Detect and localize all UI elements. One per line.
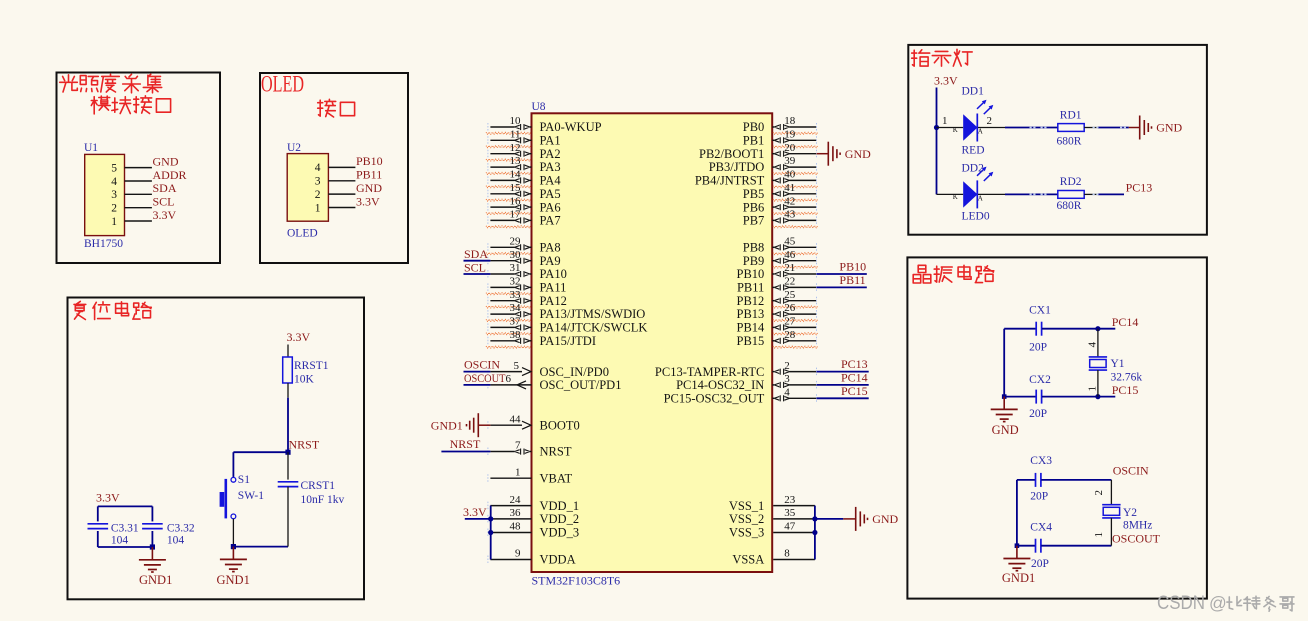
- svg-text:PC15: PC15: [841, 384, 868, 398]
- svg-text:PB11: PB11: [839, 273, 865, 287]
- svg-text:44: 44: [510, 413, 522, 425]
- svg-text:OSCOUT: OSCOUT: [1112, 532, 1161, 546]
- svg-text:PA0-WKUP: PA0-WKUP: [540, 120, 602, 134]
- svg-text:VSS_1: VSS_1: [729, 499, 764, 513]
- svg-text:10nF 1kv: 10nF 1kv: [301, 494, 345, 506]
- svg-text:VDD_2: VDD_2: [540, 512, 580, 526]
- svg-text:PA9: PA9: [540, 254, 561, 268]
- svg-text:A: A: [978, 194, 983, 202]
- svg-text:NRST: NRST: [450, 437, 481, 451]
- svg-text:35: 35: [784, 507, 796, 519]
- svg-text:3.3V: 3.3V: [463, 505, 487, 519]
- svg-text:1: 1: [942, 115, 948, 127]
- svg-text:RRST1: RRST1: [294, 360, 329, 372]
- svg-text:CRST1: CRST1: [301, 480, 336, 492]
- svg-text:@: @: [1209, 593, 1227, 613]
- svg-text:PA13/JTMS/SWDIO: PA13/JTMS/SWDIO: [540, 307, 646, 321]
- svg-text:CX1: CX1: [1029, 305, 1051, 317]
- svg-text:10K: 10K: [294, 374, 315, 386]
- svg-text:PA4: PA4: [540, 174, 562, 188]
- svg-text:PB14: PB14: [737, 321, 766, 335]
- svg-text:GND1: GND1: [431, 418, 463, 432]
- svg-text:NRST: NRST: [289, 437, 320, 451]
- svg-text:OSCIN: OSCIN: [464, 358, 500, 372]
- svg-text:PB2/BOOT1: PB2/BOOT1: [699, 147, 764, 161]
- svg-text:RED: RED: [962, 145, 985, 157]
- svg-text:GND: GND: [153, 154, 179, 168]
- svg-text:104: 104: [167, 535, 185, 547]
- svg-text:PB1: PB1: [743, 134, 765, 148]
- svg-text:PB13: PB13: [737, 307, 765, 321]
- svg-text:24: 24: [510, 494, 522, 506]
- svg-text:9: 9: [515, 548, 521, 560]
- svg-text:PC13: PC13: [841, 357, 868, 371]
- svg-text:PB0: PB0: [743, 120, 765, 134]
- svg-text:20P: 20P: [1029, 341, 1047, 353]
- svg-text:SCL: SCL: [153, 195, 175, 209]
- svg-text:VDDA: VDDA: [540, 553, 576, 567]
- svg-text:PA14/JTCK/SWCLK: PA14/JTCK/SWCLK: [540, 321, 648, 335]
- svg-text:680R: 680R: [1057, 200, 1082, 212]
- svg-text:VBAT: VBAT: [540, 471, 573, 485]
- svg-text:GND: GND: [992, 423, 1019, 437]
- svg-text:C3.32: C3.32: [167, 523, 195, 535]
- svg-text:GND: GND: [356, 181, 382, 195]
- svg-text:4: 4: [315, 162, 321, 174]
- svg-text:PA11: PA11: [540, 281, 567, 295]
- svg-text:2: 2: [315, 189, 321, 201]
- svg-text:3.3V: 3.3V: [96, 491, 120, 505]
- svg-text:NRST: NRST: [540, 445, 572, 459]
- svg-text:U2: U2: [287, 142, 301, 154]
- svg-text:C3.31: C3.31: [111, 523, 139, 535]
- svg-text:104: 104: [111, 535, 128, 547]
- svg-text:LED0: LED0: [962, 211, 990, 223]
- svg-text:PB9: PB9: [743, 254, 765, 268]
- svg-text:RD2: RD2: [1060, 176, 1082, 188]
- svg-text:PA12: PA12: [540, 294, 567, 308]
- svg-text:PC13: PC13: [1126, 181, 1153, 195]
- svg-text:PB10: PB10: [356, 154, 383, 168]
- svg-text:3: 3: [111, 189, 117, 201]
- svg-text:DD1: DD1: [962, 86, 985, 98]
- svg-text:K: K: [953, 193, 958, 201]
- svg-text:4: 4: [111, 176, 117, 188]
- svg-text:GND1: GND1: [139, 573, 172, 587]
- svg-text:20P: 20P: [1030, 491, 1048, 503]
- svg-text:8MHz: 8MHz: [1123, 520, 1152, 532]
- svg-text:PA1: PA1: [540, 134, 561, 148]
- svg-text:4: 4: [1086, 342, 1098, 348]
- svg-text:PC14: PC14: [841, 370, 868, 384]
- svg-text:PA8: PA8: [540, 241, 561, 255]
- svg-text:CX3: CX3: [1030, 455, 1052, 467]
- svg-text:PA5: PA5: [540, 187, 561, 201]
- svg-text:8: 8: [784, 548, 790, 560]
- svg-text:PC14-OSC32_IN: PC14-OSC32_IN: [676, 378, 764, 392]
- svg-text:5: 5: [111, 162, 117, 174]
- svg-text:PA3: PA3: [540, 160, 561, 174]
- svg-text:RD1: RD1: [1060, 109, 1082, 121]
- svg-text:PB3/JTDO: PB3/JTDO: [709, 160, 765, 174]
- svg-text:Y1: Y1: [1111, 358, 1125, 370]
- svg-text:VSSA: VSSA: [732, 553, 764, 567]
- svg-text:SDA: SDA: [153, 181, 177, 195]
- svg-text:3.3V: 3.3V: [153, 208, 177, 222]
- svg-text:VSS_2: VSS_2: [729, 512, 764, 526]
- svg-text:SDA: SDA: [464, 247, 488, 261]
- svg-text:PB10: PB10: [839, 260, 866, 274]
- svg-text:CX4: CX4: [1030, 522, 1052, 534]
- svg-text:3.3V: 3.3V: [356, 194, 380, 208]
- svg-text:SW-1: SW-1: [238, 490, 264, 502]
- svg-text:32.76k: 32.76k: [1111, 372, 1143, 384]
- svg-text:PC15: PC15: [1112, 383, 1139, 397]
- svg-text:PC14: PC14: [1112, 315, 1139, 329]
- svg-text:PB8: PB8: [743, 241, 765, 255]
- svg-text:6: 6: [506, 373, 512, 385]
- svg-text:VDD_1: VDD_1: [540, 499, 580, 513]
- svg-text:OLED: OLED: [287, 228, 318, 240]
- svg-text:GND1: GND1: [1002, 571, 1035, 585]
- svg-text:20P: 20P: [1029, 408, 1047, 420]
- svg-text:PA7: PA7: [540, 214, 561, 228]
- svg-text:OSCOUT: OSCOUT: [464, 371, 506, 385]
- svg-text:K: K: [953, 126, 958, 134]
- svg-text:PB10: PB10: [737, 267, 765, 281]
- svg-text:36: 36: [510, 507, 522, 519]
- svg-text:SCL: SCL: [464, 261, 486, 275]
- svg-text:Y2: Y2: [1123, 507, 1137, 519]
- svg-text:PB11: PB11: [737, 281, 764, 295]
- svg-text:GND: GND: [872, 512, 898, 526]
- svg-text:47: 47: [784, 521, 796, 533]
- svg-text:PC15-OSC32_OUT: PC15-OSC32_OUT: [664, 392, 765, 406]
- svg-text:PB4/JNTRST: PB4/JNTRST: [695, 174, 765, 188]
- svg-text:BOOT0: BOOT0: [540, 418, 580, 432]
- svg-text:GND: GND: [1156, 121, 1182, 135]
- svg-text:GND: GND: [845, 147, 871, 161]
- svg-text:CX2: CX2: [1029, 374, 1051, 386]
- svg-text:PB5: PB5: [743, 187, 765, 201]
- svg-text:DD2: DD2: [962, 163, 985, 175]
- svg-text:PB11: PB11: [356, 168, 382, 182]
- svg-text:OLED: OLED: [261, 72, 304, 97]
- svg-text:2: 2: [1093, 490, 1105, 496]
- svg-text:5: 5: [514, 360, 520, 372]
- svg-text:PA2: PA2: [540, 147, 561, 161]
- svg-text:A: A: [978, 128, 983, 136]
- svg-text:PB15: PB15: [737, 334, 765, 348]
- svg-text:PA6: PA6: [540, 200, 561, 214]
- svg-text:3: 3: [315, 176, 321, 188]
- svg-text:PC13-TAMPER-RTC: PC13-TAMPER-RTC: [655, 365, 764, 379]
- svg-text:OSC_OUT/PD1: OSC_OUT/PD1: [540, 378, 622, 392]
- svg-text:PB7: PB7: [743, 214, 765, 228]
- svg-text:680R: 680R: [1057, 136, 1082, 148]
- svg-text:PB12: PB12: [737, 294, 765, 308]
- svg-text:3.3V: 3.3V: [934, 74, 958, 88]
- svg-text:STM32F103C8T6: STM32F103C8T6: [532, 574, 621, 588]
- svg-text:OSC_IN/PD0: OSC_IN/PD0: [540, 365, 609, 379]
- svg-text:1: 1: [1093, 532, 1105, 538]
- svg-text:1: 1: [315, 202, 321, 214]
- svg-text:PA15/JTDI: PA15/JTDI: [540, 334, 597, 348]
- svg-text:2: 2: [987, 115, 993, 127]
- svg-text:U8: U8: [532, 101, 546, 113]
- svg-text:3.3V: 3.3V: [287, 330, 311, 344]
- svg-text:S1: S1: [238, 474, 250, 486]
- svg-text:1: 1: [515, 466, 521, 478]
- svg-text:1: 1: [111, 216, 117, 228]
- svg-text:BH1750: BH1750: [84, 238, 123, 250]
- svg-text:PA10: PA10: [540, 267, 567, 281]
- svg-text:VDD_3: VDD_3: [540, 526, 580, 540]
- svg-text:U1: U1: [84, 142, 98, 154]
- svg-text:ADDR: ADDR: [153, 168, 187, 182]
- svg-text:CSDN: CSDN: [1157, 593, 1205, 614]
- svg-text:20P: 20P: [1031, 558, 1049, 570]
- svg-text:VSS_3: VSS_3: [729, 526, 764, 540]
- svg-text:2: 2: [111, 203, 117, 215]
- svg-text:1: 1: [1086, 386, 1098, 392]
- svg-text:GND1: GND1: [217, 573, 250, 587]
- svg-text:23: 23: [784, 494, 796, 506]
- svg-text:PB6: PB6: [743, 200, 765, 214]
- svg-text:OSCIN: OSCIN: [1113, 464, 1149, 478]
- svg-text:48: 48: [510, 521, 522, 533]
